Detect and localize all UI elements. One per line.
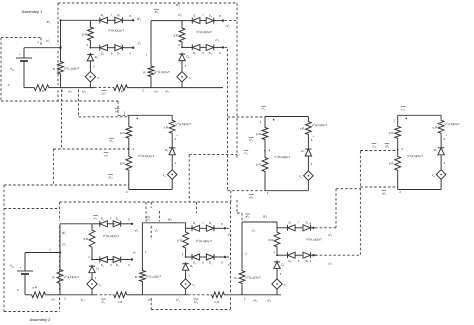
cell B1 bottom wire	[129, 189, 172, 191]
svg-text:β R: β R	[84, 237, 90, 241]
svg-text:VT(1,b)[1]+T: VT(1,b)[1]+T	[176, 122, 192, 126]
dashed stub top terminal A5	[315, 227, 336, 229]
dashed box assembly 1 right edge	[236, 3, 238, 158]
wire second pair segments A3	[107, 259, 114, 261]
wire battery 1 bottom	[24, 87, 33, 89]
dashed stub second terminal A4	[227, 256, 231, 258]
dashed connector node 2 drop	[61, 90, 63, 150]
terminal dot second pair A2	[222, 46, 224, 48]
cell B2 top wire	[265, 116, 308, 118]
wire bottom A5	[242, 294, 281, 296]
wire bottom A3 solid	[60, 294, 95, 296]
svg-text:VT(A,c)[2]+T: VT(A,c)[2]+T	[196, 30, 212, 34]
svg-text:VT(1,c)[3]+T: VT(1,c)[3]+T	[246, 276, 262, 280]
diode D1 second pair second A4	[206, 254, 214, 260]
svg-text:VT(H,d)[2]+T: VT(H,d)[2]+T	[196, 239, 212, 243]
wire battery 1 top	[24, 47, 61, 49]
diode D1 stem A3	[91, 265, 93, 267]
svg-text:β R: β R	[256, 163, 262, 167]
diode D1 second pair second A2	[206, 44, 214, 50]
cell B1 marker dot	[137, 118, 139, 120]
resistor R A3	[57, 269, 63, 285]
diode D1 second pair first A4	[191, 254, 193, 260]
dashed wire d14 to cell B3 bottom	[360, 186, 397, 188]
wire bottom A4 solid	[142, 294, 188, 296]
dashed connector to cell B1 top	[117, 101, 119, 115]
diode D1 second pair first A2	[191, 44, 193, 50]
voltage source Vps assembly 1	[16, 57, 32, 59]
resistor R A5	[239, 270, 245, 285]
wire battery 2 bottom	[25, 294, 30, 296]
node 4 B3	[440, 156, 442, 170]
dependent source va A2	[181, 62, 183, 72]
dashed box assembly 1 left edge	[57, 3, 59, 45]
diode D1 B2	[307, 148, 309, 150]
wire extension A5 second pair	[314, 254, 318, 256]
wire second pair segments A2	[200, 46, 207, 48]
stem wire A3	[91, 224, 93, 229]
dashed stub top terminal A4	[227, 227, 231, 229]
wire second pair A1	[90, 47, 99, 49]
resistor betaR lower B1	[126, 155, 132, 171]
terminal dot second pair A3	[131, 258, 133, 260]
dependent source va B1	[167, 170, 177, 180]
diode D1 top pair second A1	[115, 17, 123, 23]
cell B2 left wire	[264, 117, 266, 127]
node 5 B3	[440, 134, 442, 146]
diode D1 stem A4	[185, 262, 187, 264]
resistor R A1	[58, 61, 64, 76]
cell A4 left wire	[141, 223, 143, 270]
node 1 junction dot	[59, 47, 61, 49]
resistor betaR A5	[274, 231, 280, 248]
cell B3 marker dot	[406, 118, 408, 120]
svg-text:VT(1,c)[2]+T: VT(1,c)[2]+T	[146, 275, 162, 279]
dashed wire d14 long horizontal	[4, 184, 129, 186]
svg-text:β R: β R	[256, 132, 262, 136]
stem wire A2	[181, 21, 183, 27]
cell B3 bottom wire	[398, 189, 441, 191]
wire bottom A2	[151, 87, 223, 89]
cell A2 left wire	[150, 21, 152, 65]
dashed wire under middle row	[60, 201, 231, 203]
svg-text:α R: α R	[32, 286, 38, 290]
cell B3 left wire	[397, 115, 399, 125]
cell A5 left wire	[241, 222, 243, 270]
svg-text:PS: PS	[12, 267, 14, 269]
wire diamond to bottom B3	[440, 179, 442, 189]
dashed connector left step	[52, 149, 54, 185]
svg-text:VT(1,b)[3]+T: VT(1,b)[3]+T	[444, 122, 460, 126]
wire top A2	[151, 20, 182, 22]
dashed box battery 1 bottom edge	[1, 100, 118, 102]
dashed wire to cell B3 node 3	[360, 150, 397, 152]
dashed wire to assembly edge	[189, 154, 237, 156]
terminal dot top pair A5	[312, 227, 314, 229]
dashed box around cell A4 left edge	[150, 202, 152, 208]
resistor alphaR assembly 1	[33, 85, 50, 91]
diode D1 B3	[440, 146, 442, 148]
resistor betaR upper B1	[126, 125, 132, 139]
resistor gammaR B1	[171, 115, 173, 119]
wire top A3	[60, 223, 92, 225]
resistor betaR lower B2	[262, 157, 268, 173]
resistor R A4	[140, 270, 146, 283]
dashed box around cell A4 bottom edge	[151, 309, 230, 311]
terminal dot top pair A2	[222, 19, 224, 21]
dependent source va A1	[89, 62, 91, 72]
node battery junction dot A3	[59, 251, 61, 253]
wire bottom to A4	[128, 294, 142, 296]
dependent source va A3	[91, 274, 93, 279]
terminal dot second pair A1	[132, 47, 134, 49]
node 4 A5	[276, 254, 278, 256]
dashed connector left vertical to assembly 2	[3, 185, 5, 312]
cell B1 left wire	[128, 115, 130, 125]
cell B2 bottom wire	[265, 190, 308, 192]
cell A3 left wire	[59, 224, 61, 269]
resistor betaR lower B3	[395, 155, 401, 171]
diode D1 stem A5	[276, 260, 278, 262]
wire second pair segments A5	[295, 254, 302, 256]
voltage source Vps assembly 2	[17, 270, 33, 272]
stem wire A1	[89, 20, 91, 26]
wire stem bottom A4	[185, 289, 187, 295]
svg-text:V: V	[10, 67, 12, 71]
resistor betaR A1	[88, 26, 94, 42]
dashed wire A5 to B2 area	[336, 188, 360, 190]
dashed box battery 2 right edge	[59, 202, 61, 221]
svg-text:VT(H,c)[3]+T: VT(H,c)[3]+T	[306, 238, 322, 242]
svg-text:β R: β R	[82, 32, 88, 36]
dashed wire e11 to cell B1	[79, 116, 129, 118]
dashed connector to cell B2 bottom corner	[230, 191, 232, 202]
wire top A5	[242, 221, 277, 223]
wire top pair A4	[200, 227, 207, 229]
cell B1 top wire	[129, 114, 172, 116]
dependent source va B3	[436, 170, 446, 180]
dashed connector short stub	[195, 202, 197, 213]
dashed jog to cell A5 corner	[237, 212, 242, 214]
wire top pair A3	[107, 223, 114, 225]
wire second pair A3	[92, 259, 100, 261]
dependent source va B2	[304, 171, 314, 181]
svg-text:VT(1,1)[1]+T: VT(1,1)[1]+T	[64, 66, 80, 70]
wire diamond to bottom B1	[171, 179, 173, 189]
dashed connector node b drop	[78, 90, 80, 117]
wire stem bottom A2	[181, 82, 183, 88]
wire second pair A2	[182, 46, 192, 48]
diode D1 top pair first A5	[287, 225, 289, 231]
resistor betaR upper B2	[262, 127, 268, 141]
node 5 B1	[171, 134, 173, 146]
wire top pair A2	[200, 20, 207, 22]
dashed wire e12 to cell B1 node 3	[53, 148, 128, 150]
diode D1 stem A2	[181, 53, 183, 55]
diode D1 top pair second A4	[206, 225, 214, 231]
wire second pair A5	[277, 254, 288, 256]
dashed box battery 2 bottom edge	[4, 311, 60, 313]
dashed box battery 1 left edge	[0, 38, 2, 101]
diode D1 second pair first A5	[287, 252, 289, 258]
dashed wire d13 to cell B2	[228, 190, 266, 192]
svg-text:VT(A,b)[3]+T: VT(A,b)[3]+T	[407, 154, 423, 158]
svg-text:PS: PS	[12, 70, 14, 72]
svg-text:Assembly 1: Assembly 1	[22, 9, 43, 14]
svg-text:VT(1,b)[2]+T: VT(1,b)[2]+T	[312, 123, 328, 127]
resistor betaR upper B3	[395, 125, 401, 139]
resistor alphaR between A3 A4	[113, 292, 128, 298]
resistor gammaR B3	[440, 115, 442, 119]
node 4 B1	[171, 156, 173, 170]
resistor betaR A4	[183, 231, 189, 249]
wire second pair segments A1	[107, 47, 115, 49]
dashed connector mid vertical	[188, 155, 190, 202]
resistor betaR A3	[89, 229, 95, 248]
svg-text:Assembly 2: Assembly 2	[30, 317, 51, 322]
dashed stub c12 terminal	[225, 46, 228, 48]
terminal dot A1 top corner	[60, 19, 62, 21]
resistor alphaR between A4 A5	[211, 292, 226, 298]
wire top A1	[61, 19, 91, 21]
node 5 B2	[307, 136, 309, 148]
wire second pair segments A4	[200, 256, 207, 258]
svg-text:β R: β R	[389, 161, 395, 165]
wire stem bottom A3	[91, 289, 93, 295]
node 4 B2	[307, 157, 309, 171]
resistor alphaR between A1 A2	[113, 85, 129, 91]
dashed wire to cell B2 top corner	[228, 116, 266, 118]
svg-text:VT(A,K)[1]+T: VT(A,K)[1]+T	[108, 29, 124, 33]
dashed stub top terminal A2	[225, 20, 238, 22]
dashed riser right of cell B2	[359, 151, 361, 255]
dashed box around cell A4 left edge lower	[150, 226, 152, 240]
wire stem bottom A1	[89, 82, 91, 88]
dashed stub second terminal A5	[315, 254, 360, 256]
terminal dot top pair A3	[131, 223, 133, 225]
diode D1 top pair first A3	[99, 221, 101, 227]
wire battery 2 top	[25, 252, 60, 254]
svg-text:VT(A,b)[1]+T: VT(A,b)[1]+T	[138, 154, 154, 158]
wire bottom A1 dashed segment	[94, 87, 113, 89]
dashed connector stub right of A4 label	[158, 211, 160, 222]
svg-text:α R: α R	[118, 90, 124, 94]
svg-text:β R: β R	[389, 131, 395, 135]
node 4 A2	[181, 47, 183, 49]
svg-text:α R: α R	[118, 300, 124, 304]
svg-text:α R: α R	[39, 89, 45, 93]
stem wire A4	[185, 228, 187, 231]
svg-text:β R: β R	[120, 161, 126, 165]
dashed wire c12 terminal drop	[227, 49, 229, 191]
diode D1 top pair second A3	[113, 221, 121, 227]
svg-text:V: V	[10, 264, 12, 268]
wire second pair A4	[186, 256, 192, 258]
wire top pair A1	[107, 19, 115, 21]
diode D1 top pair first A2	[191, 18, 193, 24]
dashed connector drop to cell A4	[145, 202, 147, 222]
svg-text:α R: α R	[215, 300, 221, 304]
svg-text:VT(H,A)[1]+T: VT(H,A)[1]+T	[103, 234, 120, 238]
stem wire A5	[276, 228, 278, 231]
wire bottom to A5	[226, 294, 243, 296]
dashed riser from A5 d terminal	[335, 189, 337, 228]
diode D1 second pair second A1	[115, 45, 123, 51]
wire diamond to bottom B2	[307, 181, 309, 191]
diode D1 second pair second A5	[303, 252, 311, 258]
diode D1 second pair second A3	[113, 257, 121, 263]
wire bottom A1 solid	[61, 87, 95, 89]
diode D1 stem A1	[89, 53, 91, 55]
resistor gammaR B2	[307, 117, 309, 121]
svg-text:VT(1,1)[1]+T: VT(1,1)[1]+T	[64, 275, 80, 279]
terminal dot second pair A4	[224, 256, 226, 258]
node 4 A1	[90, 47, 92, 49]
wire top A4	[142, 222, 185, 224]
dashed box assembly 1 top edge	[58, 2, 237, 4]
diode D1 top pair first A4	[191, 225, 193, 231]
dashed box battery 2 top edge	[4, 208, 60, 210]
svg-text:β R: β R	[269, 238, 275, 242]
node 4 A4	[185, 256, 187, 258]
wire bottom A3 dashed segment	[95, 294, 113, 296]
diode D1 top pair second A2	[206, 18, 214, 24]
terminal dot second pair A5	[312, 254, 314, 256]
cell B2 marker dot	[273, 119, 275, 121]
diode D1 top pair second A5	[303, 225, 311, 231]
wire stem bottom A5	[276, 289, 278, 295]
wire top pair A5	[295, 227, 302, 229]
svg-text:β R: β R	[174, 34, 180, 38]
svg-text:β R: β R	[177, 239, 183, 243]
terminal dot top pair A1	[132, 19, 134, 21]
resistor alphaR assembly 2	[30, 292, 46, 298]
dependent source va A4	[185, 271, 187, 279]
dashed connector drop to A4 diode terminal and box right edge	[230, 202, 232, 293]
diode D1 second pair first A3	[99, 257, 101, 263]
diode D1 top pair first A1	[99, 17, 101, 23]
svg-text:VT(1,c)[2]+T: VT(1,c)[2]+T	[155, 70, 171, 74]
node 4 A3	[91, 259, 93, 261]
diode D1 B1	[171, 146, 173, 148]
dependent source va A5	[276, 269, 278, 278]
cell A1 left wire	[60, 20, 62, 60]
resistor betaR A2	[179, 27, 185, 43]
wire bottom A4 dashed segment	[188, 294, 210, 296]
terminal dot top pair A4	[224, 227, 226, 229]
svg-text:VT(A,b)[2]+T: VT(A,b)[2]+T	[275, 155, 291, 159]
dashed box battery 1 top edge	[1, 37, 41, 39]
cell B3 top wire	[398, 114, 441, 116]
wire bottom to A2	[129, 87, 152, 89]
diode D1 second pair first A1	[99, 45, 101, 51]
svg-text:β R: β R	[120, 131, 126, 135]
resistor R A2	[148, 65, 154, 78]
